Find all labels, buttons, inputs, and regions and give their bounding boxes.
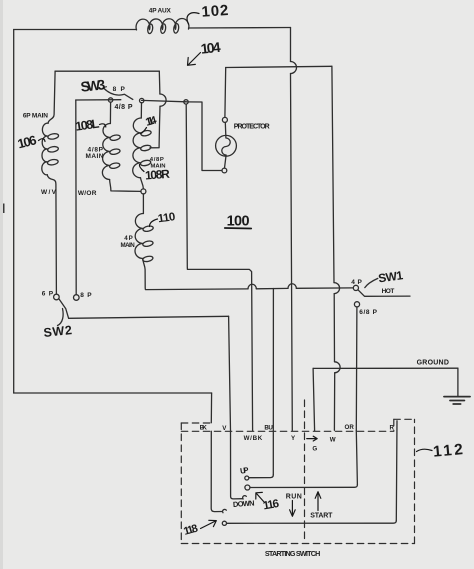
wire: ground line horizontal [313,367,458,369]
wire: R corner to start contact line [227,521,396,524]
contact circle: start line end [222,521,226,525]
arrow: START up [317,493,319,511]
svg-text:RUN: RUN [286,493,302,500]
pin: protector bottom terminal [222,168,227,173]
svg-text:4P AUX: 4P AUX [149,7,172,14]
svg-text:W/OR: W/OR [78,190,97,197]
switch SW3 arm [104,88,133,99]
wire: SW2 common line [69,316,229,318]
contact hook: BK (118) [223,509,227,512]
switch SW1 arm [358,290,410,296]
svg-text:PROTECTOR: PROTECTOR [234,124,270,131]
inductor 108L (4/8P MAIN left) [102,123,120,179]
svg-text:4 P: 4 P [351,279,362,286]
arrow: G pointer [307,438,317,440]
contact circle: common 116 [245,485,250,490]
contact hook: DOWN [243,496,247,499]
wire: coil 114 top lead [140,103,142,118]
arrow: 104 pointer [189,53,201,65]
inductor 102 (4P AUX coil) [136,19,189,34]
wire: coil 108L bottom lead [110,180,141,192]
scan artifact: left edge shading [0,0,3,569]
inductor 114 / 108R (4/8P MAIN right, tapped) [133,118,152,178]
wire: SW3 riser down [158,71,161,94]
wire: riser to coil 114 tap [150,106,160,148]
svg-text:114: 114 [144,114,159,129]
pin: SW2 8P terminal [74,295,80,301]
starting switch 112 dashed enclosure [181,400,414,544]
wire: W net vertical middle [333,294,335,362]
wire: bottom rail (BK net) [14,392,212,394]
wire hop: W net over ground line [335,362,341,373]
wire: coil 106 bottom lead down to SW2 6P [47,175,56,294]
svg-text:MAIN: MAIN [121,242,136,249]
wire: SW2 8P drop [75,100,77,295]
wire: rail to protector bottom [186,102,222,171]
wire: BK net drop to box [210,393,212,423]
svg-text:W: W [330,436,336,443]
wire hop: W net over run line [334,283,340,294]
dashed border: right [414,419,416,543]
svg-text:8 P: 8 P [80,292,92,299]
wire: BU corner to UP contact [249,475,273,478]
pin: SW2 6P terminal [54,294,60,300]
scan artifact: left edge mark [0,204,5,214]
wire hop: run line over W/BK net [248,284,256,289]
wire: coil 110 top lead [142,194,144,214]
svg-text:HOT: HOT [382,288,395,295]
svg-text:BK: BK [200,424,208,431]
svg-text:OR: OR [345,424,355,431]
svg-text:SW1: SW1 [377,268,404,285]
dashed divider: run/start [304,400,306,543]
wire: OR net into box [356,431,357,485]
svg-text:DOWN: DOWN [233,499,255,509]
leader: 106 [39,139,46,142]
wire hop: Y net over 8P segment [291,62,297,74]
leader: 102 [187,13,199,24]
wire: left outer border [13,30,15,394]
leader: SW3 to arm [104,87,107,88]
wire: OR corner to common contact [250,485,357,488]
svg-text:106: 106 [16,132,38,151]
svg-text:BU: BU [264,425,273,432]
starting switch box interior: BK wire into box [211,431,222,511]
svg-text:8 P: 8 P [113,86,126,93]
wire: ground lead down to symbol [457,368,459,396]
svg-text:102: 102 [201,2,229,21]
svg-text:4/8P: 4/8P [150,157,164,163]
leader: 108R [139,165,144,172]
svg-text:112: 112 [432,441,463,461]
contact circle: UP [245,476,249,480]
wire: top rail left of coil 102 [14,29,137,31]
svg-text:100: 100 [227,214,250,230]
svg-text:118: 118 [182,522,199,537]
svg-text:MAIN: MAIN [86,153,104,160]
leader: SW2 label [58,309,64,326]
node: W/BK net junction [184,100,188,104]
svg-text:104: 104 [200,39,222,57]
dashed border: R notch side [393,419,395,430]
wire: coil 108L top lead [109,102,111,123]
wire: W/BK net from junction down [186,104,252,431]
svg-text:R: R [390,424,395,431]
svg-text:START: START [310,512,333,519]
leader: 110 [150,219,158,227]
svg-text:SW3: SW3 [80,76,106,95]
leader: 112 [417,449,433,451]
wire: 4/8P segment (protector top to W net corner) [226,66,332,67]
dashed border: R notch top [394,418,415,420]
arrow: 118 pointer [201,521,216,529]
leader: 114 [141,128,147,134]
node: coil 108 junction (open circle) [141,189,146,194]
wire: protector top riser [224,68,227,118]
svg-text:6 P: 6 P [42,291,54,298]
svg-text:SW2: SW2 [43,323,73,340]
pin: SW1 4P terminal [353,285,358,290]
inductor 106 (6P MAIN) [42,123,59,175]
svg-text:G: G [312,445,317,452]
node: SW3 pole (junction to coil 108L) [108,98,112,102]
switch SW2 arm [59,299,68,318]
wire hop: SW3 riser over main rail [160,94,166,106]
underline for 100 [225,227,251,230]
leader: 108L [100,124,106,127]
wire: W net vertical upper [332,66,334,282]
svg-text:4/8 P: 4/8 P [115,104,133,111]
svg-text:108R: 108R [145,167,171,183]
ground symbol [444,397,470,404]
svg-text:GROUND: GROUND [417,360,449,367]
dashed border: BK notch [181,422,210,424]
wire: OR net from SW1 6/8P down to starting switch [355,307,358,431]
arrow: RUN down [291,501,293,516]
svg-text:108L: 108L [74,117,100,134]
wire: coil 108R bottom lead [141,178,144,189]
dashed border: top [181,430,393,432]
inductor 110 (4P MAIN) [135,213,154,262]
wire: run line middle section [256,287,288,289]
arrow: 116 pointer [257,494,265,503]
wire: V net vertical [229,316,231,430]
dashed border: left [180,423,182,544]
wire: V net into box to DOWN contact [231,431,243,499]
wire: main rail from SW2-8P corner to SW3 contact [76,99,121,101]
wire: W net vertical lower [333,373,335,431]
wire: R net into box [395,421,398,521]
wire: Y net vertical drop from top rail [290,28,292,62]
wire: Y net vertical continues to starting switch [291,74,293,431]
svg-text:Y: Y [291,435,296,442]
svg-text:STARTING SWITCH: STARTING SWITCH [265,549,320,558]
node: coil 114 top junction [140,98,144,102]
svg-text:110: 110 [157,211,176,225]
svg-text:W/BK: W/BK [244,435,263,442]
pin: SW1 6/8P terminal [354,302,359,307]
pin: protector top terminal [222,117,227,122]
leader: SW1 label [365,278,378,287]
svg-text:6P MAIN: 6P MAIN [23,112,48,119]
svg-text:W/V: W/V [41,189,57,196]
wire: run line to SW1 4P [296,287,353,289]
protector bimetal curve [222,122,230,168]
svg-text:UP: UP [239,466,249,476]
wire: ground drop to G terminal [313,368,315,430]
wire: coil 110 bottom lead [143,259,248,290]
svg-text:6/8 P: 6/8 P [359,309,377,316]
dashed border: bottom [181,543,414,545]
wire: coil 106 top lead [48,71,55,123]
wire: 8P segment (coil 106 top to SW3 riser) [55,70,159,72]
wire hop: run line over Y net [288,284,296,289]
wire: main rail node2 to node3 [142,100,187,101]
thermal protector body [216,135,237,156]
wire: BU net into box [272,289,274,475]
svg-text:116: 116 [262,498,280,513]
wire: top rail right of coil 102 [189,27,291,30]
